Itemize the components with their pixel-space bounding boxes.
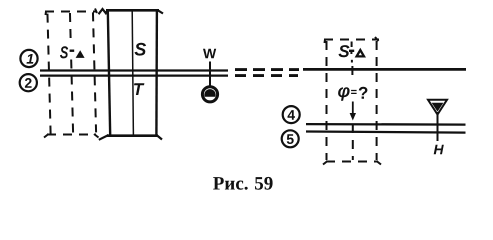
single wire line (right feeder) bbox=[303, 68, 466, 71]
wattmeter W label bbox=[203, 49, 216, 59]
wire line 1 dashed continuation bbox=[235, 68, 299, 71]
solid box corner hooks bbox=[99, 9, 164, 140]
wire line 4 (top conductor) bbox=[306, 123, 466, 126]
label hyphen (right box) bbox=[349, 50, 354, 52]
wire line 1 (top conductor, solid part) bbox=[40, 69, 228, 71]
wire line 2 dashed continuation bbox=[235, 74, 298, 77]
wattmeter tap wire bbox=[209, 62, 211, 88]
label S (right box) bbox=[339, 45, 350, 57]
label phi bbox=[338, 87, 350, 100]
antenna / load symbol stem bbox=[437, 112, 439, 141]
node 2 terminal circle bbox=[20, 74, 37, 91]
node 1 terminal circle bbox=[20, 50, 37, 67]
left box corner hooks bbox=[44, 9, 99, 138]
transformer block S-Delta (left, dashed) bbox=[47, 12, 96, 133]
label Delta (left box) bbox=[76, 50, 85, 58]
wattmeter body (half filled circle) bbox=[202, 87, 217, 102]
antenna triangle symbol bbox=[428, 100, 447, 115]
right box corner hooks bbox=[323, 37, 381, 165]
phase arrow (down) bbox=[350, 102, 356, 121]
wire line 5 (bottom conductor) bbox=[306, 132, 466, 133]
label Delta (right box) bbox=[357, 50, 364, 56]
label T (solid box) bbox=[134, 83, 144, 95]
label hyphen (left box) bbox=[70, 50, 75, 52]
right box mid vertical dashes (through label) bbox=[350, 42, 353, 63]
node 4 terminal circle bbox=[283, 106, 300, 123]
caption Ris. 59 bbox=[213, 177, 273, 190]
transformer block S-Delta (right, dashed) bbox=[324, 40, 379, 162]
label equals bbox=[351, 90, 357, 94]
label H bbox=[434, 145, 444, 155]
label S (solid box winding) bbox=[135, 43, 147, 56]
transformer block S (solid box) bbox=[106, 10, 159, 136]
label question mark bbox=[359, 87, 368, 99]
wire line 2 (bottom conductor, solid part) bbox=[40, 74, 228, 76]
label S (left box) bbox=[60, 46, 68, 58]
node 5 terminal circle bbox=[282, 130, 299, 147]
